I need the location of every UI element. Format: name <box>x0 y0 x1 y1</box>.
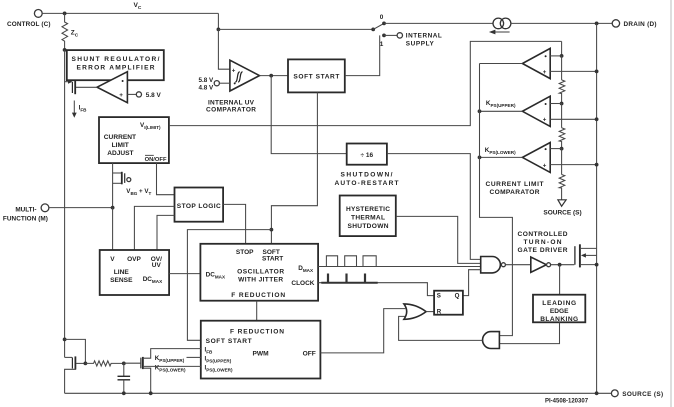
junction chain tap 2 <box>560 102 564 106</box>
wire latch Q to NAND <box>463 270 481 296</box>
svg-text:1: 1 <box>380 41 384 48</box>
svg-text:OFF: OFF <box>303 351 316 358</box>
svg-text:÷ 16: ÷ 16 <box>360 152 373 159</box>
svg-text:5.8 V: 5.8 V <box>198 77 214 84</box>
wire comp1 inverting input <box>550 55 561 57</box>
box PWM <box>201 321 321 379</box>
wire CLOCK to latch S <box>318 283 434 296</box>
svg-text:THERMAL: THERMAL <box>351 215 385 222</box>
svg-text:S: S <box>437 293 441 300</box>
wire stop logic to oscillator STOP <box>223 204 246 243</box>
box HYSTERETIC THERMAL SHUTDOWN <box>340 196 396 237</box>
box OSCILLATOR WITH JITTER <box>200 244 318 301</box>
node DRAIN (D) terminal <box>612 20 656 28</box>
resistor chain R1 <box>559 80 565 104</box>
svg-text:LIMIT: LIMIT <box>112 142 129 149</box>
box CURRENT LIMIT ADJUST <box>99 117 169 163</box>
wire PWM OFF to OR gate <box>320 309 405 353</box>
wire comp3 inverting input <box>550 148 561 150</box>
resistor chain R3 <box>559 175 565 200</box>
svg-text:DRAIN (D): DRAIN (D) <box>624 21 657 28</box>
svg-text:PWM: PWM <box>253 350 270 357</box>
wire KPS upper to PWM <box>187 356 201 358</box>
svg-text:OSCILLATOR: OSCILLATOR <box>237 269 284 276</box>
svg-text:LINE: LINE <box>114 269 130 276</box>
svg-text:R: R <box>437 308 442 315</box>
svg-text:EDGE: EDGE <box>550 308 569 315</box>
svg-text:+: + <box>543 69 547 76</box>
capacitor filter cap <box>118 363 131 393</box>
box shunt regulator / error amplifier label box <box>67 50 164 80</box>
wire OR output to latch R <box>426 311 434 313</box>
wire bottom source rail <box>65 392 612 394</box>
svg-text:SHUTDOWN/: SHUTDOWN/ <box>341 172 393 179</box>
svg-text:COMPARATOR: COMPARATOR <box>206 106 256 113</box>
junction shunt regulator tap <box>63 48 67 52</box>
svg-text:SOFT START: SOFT START <box>293 73 339 80</box>
wire KPS lower to PWM <box>144 365 201 367</box>
svg-text:4.8 V: 4.8 V <box>198 85 214 92</box>
transistor output MOSFET <box>575 244 599 267</box>
wire comp3 plus input to drain rail <box>550 164 596 166</box>
svg-text:OVP: OVP <box>127 256 141 263</box>
svg-text:COMPARATOR: COMPARATOR <box>490 189 540 196</box>
node MULTI-FUNCTION (M) terminal <box>3 204 49 223</box>
svg-text:ON/OFF: ON/OFF <box>145 157 167 163</box>
box divide by 16 <box>347 144 387 165</box>
svg-text:SENSE: SENSE <box>110 277 133 284</box>
node SOURCE (S) terminal <box>611 390 663 398</box>
svg-text:F REDUCTION: F REDUCTION <box>231 292 285 299</box>
svg-text:SOURCE (S): SOURCE (S) <box>543 209 581 216</box>
wire UV output down to divide-by-16 <box>271 76 347 154</box>
svg-text:INTERNAL: INTERNAL <box>406 33 442 40</box>
svg-text:SHUNT REGULATOR/: SHUNT REGULATOR/ <box>72 56 160 63</box>
svg-text:+: + <box>232 67 236 74</box>
wire UV output to soft start <box>260 75 289 77</box>
op-amp current limit comparator 2 KPS(UPPER) <box>486 96 550 126</box>
svg-text:TURN-ON: TURN-ON <box>524 239 562 246</box>
wire current source to drain <box>511 22 612 24</box>
svg-text:SHUTDOWN: SHUTDOWN <box>348 223 389 230</box>
figure frame right edge <box>670 0 672 407</box>
svg-text:UV: UV <box>152 262 162 269</box>
transistor current mirror diode-connected MOSFET <box>63 338 86 394</box>
wire M pin to line sense <box>49 207 113 209</box>
junction Zc top <box>63 12 67 16</box>
wire switch contact 0 to current source <box>384 22 493 24</box>
node INTERNAL SUPPLY terminal <box>384 33 442 48</box>
svg-text:V: V <box>110 256 115 263</box>
waveform DMAX pulses <box>326 256 376 267</box>
svg-text:LEADING: LEADING <box>542 300 576 307</box>
junction rail comp3 <box>595 163 599 167</box>
wire divide16 output to NAND <box>387 154 481 260</box>
svg-text:+: + <box>543 117 547 124</box>
wire comparator bus to AND gate <box>480 64 513 336</box>
wire V input into line sense <box>112 208 114 250</box>
wire UV comparator plus input drop <box>218 29 230 69</box>
transistor KPS sense MOSFET <box>124 349 201 394</box>
wire line sense DCMAX to oscillator <box>169 273 200 275</box>
wire OV/UV to stop logic <box>157 215 175 250</box>
svg-text:FUNCTION (M): FUNCTION (M) <box>3 216 48 223</box>
wire thermal shutdown to NAND <box>396 216 481 263</box>
wire AND output to OR gate <box>399 316 483 340</box>
wire chain segment 1 <box>561 56 563 80</box>
junction chain tap 3 <box>560 147 564 151</box>
wire comp2 inverting input <box>550 103 561 105</box>
svg-text:STOP: STOP <box>236 249 254 256</box>
op-amp current limit comparator 1 <box>522 48 550 78</box>
gate NAND drive logic <box>481 257 506 273</box>
op-amp internal UV comparator <box>230 60 260 91</box>
resistor gate filter <box>85 361 123 366</box>
junction chain tap 1 <box>560 54 564 58</box>
junction bus comp2 <box>478 109 482 113</box>
junction rail comp2 <box>595 117 599 121</box>
wire CONTROL to Vc rail <box>42 12 218 14</box>
node 5.8V 4.8V UV threshold terminal <box>198 77 229 92</box>
latch SR flip flop <box>434 291 463 316</box>
junction rail cap <box>122 391 126 395</box>
wire chain segment 3 <box>561 149 563 175</box>
svg-text:5.8 V: 5.8 V <box>146 92 162 99</box>
svg-text:+: + <box>543 162 547 169</box>
wire comp1 plus input to drain rail <box>550 70 596 72</box>
svg-text:GATE DRIVER: GATE DRIVER <box>518 247 568 254</box>
wire OVP to stop logic <box>134 206 174 250</box>
resistor ZC <box>62 13 79 50</box>
box LINE SENSE <box>100 250 169 295</box>
wire soft start box bottom path <box>271 92 317 243</box>
wire NAND output to gate driver <box>505 264 530 266</box>
wire chain segment 2 <box>561 104 563 128</box>
svg-text:ADJUST: ADJUST <box>107 150 133 157</box>
junction Vc rail node <box>217 28 221 32</box>
wire soft start box to switch contact 1 <box>345 35 380 75</box>
junction gate node to LEB <box>558 263 562 267</box>
svg-text:CLOCK: CLOCK <box>291 280 314 287</box>
wire comp1 output to bus <box>480 63 523 65</box>
svg-text:WITH JITTER: WITH JITTER <box>238 277 283 284</box>
box STOP LOGIC <box>175 188 224 222</box>
junction rail comp1 <box>595 70 599 74</box>
gate OR latch reset <box>404 304 426 319</box>
svg-text:VBG + VT: VBG + VT <box>126 188 151 196</box>
switch blade 0/1 <box>371 14 386 48</box>
svg-text:START: START <box>262 255 283 262</box>
wire VI(LIMIT) to resistor chain top <box>169 41 562 125</box>
svg-text:F REDUCTION: F REDUCTION <box>230 328 284 335</box>
junction soft start branch <box>270 228 274 232</box>
junction filter node <box>122 362 126 366</box>
svg-text:+: + <box>119 92 123 99</box>
svg-text:HYSTERETIC: HYSTERETIC <box>346 206 390 213</box>
svg-text:MULTI-: MULTI- <box>15 206 36 213</box>
wire LEB to AND gate <box>499 322 559 343</box>
transistor VBG bias MOSFET <box>113 163 152 208</box>
node 5.8 V reference terminal <box>127 92 161 99</box>
wire Vc rail drop <box>217 13 219 29</box>
wire ON/OFF to stop logic <box>157 163 175 195</box>
wire soft start branch to PWM <box>187 230 271 341</box>
wire DMAX to NAND <box>318 266 481 268</box>
junction drain rail top <box>595 22 599 26</box>
wire comp3 output to bus <box>480 156 523 158</box>
svg-text:PI-4508-120307: PI-4508-120307 <box>545 398 589 404</box>
waveform CLOCK ticks <box>321 274 377 283</box>
svg-text:SOFT START: SOFT START <box>206 338 252 345</box>
svg-text:CURRENT: CURRENT <box>104 134 136 141</box>
node IFB arrow <box>72 101 87 118</box>
op-amp shunt regulator error amplifier <box>97 72 127 103</box>
box LEADING EDGE BLANKING <box>533 265 585 323</box>
wire control bus vertical <box>64 50 66 358</box>
svg-text:CONTROLLED: CONTROLLED <box>518 231 568 238</box>
junction rail drain leg <box>595 391 599 395</box>
svg-text:STOP LOGIC: STOP LOGIC <box>177 203 221 210</box>
svg-text:Q: Q <box>455 293 460 300</box>
junction rail KPS source <box>149 391 153 395</box>
wire driver to MOSFET gate <box>551 264 575 266</box>
resistor chain R2 <box>559 128 565 149</box>
gate AND mirrored leading edge <box>483 332 500 349</box>
ground SOURCE (S) arrow <box>543 200 581 217</box>
wire rail to switch pivot <box>218 28 373 30</box>
svg-text:SUPPLY: SUPPLY <box>406 41 435 48</box>
svg-text:CURRENT LIMIT: CURRENT LIMIT <box>486 181 544 188</box>
svg-text:SOURCE (S): SOURCE (S) <box>622 391 663 398</box>
op-amp current limit comparator 3 KPS(LOWER) <box>485 143 550 173</box>
svg-text:BLANKING: BLANKING <box>540 316 578 323</box>
svg-text:CONTROL (C): CONTROL (C) <box>7 21 51 28</box>
wire oscillator F reduction to PWM <box>256 301 258 321</box>
gate driver buffer <box>531 257 551 272</box>
wire drain rail <box>596 23 598 393</box>
junction mirror drain node <box>84 362 88 366</box>
box SOFT START <box>288 59 345 92</box>
current source symbol <box>489 18 511 34</box>
junction M node <box>111 206 115 210</box>
wire comp2 output to bus <box>480 110 523 112</box>
junction bus comp3 <box>478 156 482 160</box>
wire comp2 plus input to drain rail <box>550 118 596 120</box>
transistor shunt feedback MOSFET <box>65 80 98 95</box>
wire resistor chain top <box>561 41 563 56</box>
junction UV output node <box>269 74 273 78</box>
svg-text:AUTO-RESTART: AUTO-RESTART <box>335 180 399 187</box>
svg-text:0: 0 <box>380 14 384 21</box>
node CONTROL (C) terminal <box>7 10 51 28</box>
